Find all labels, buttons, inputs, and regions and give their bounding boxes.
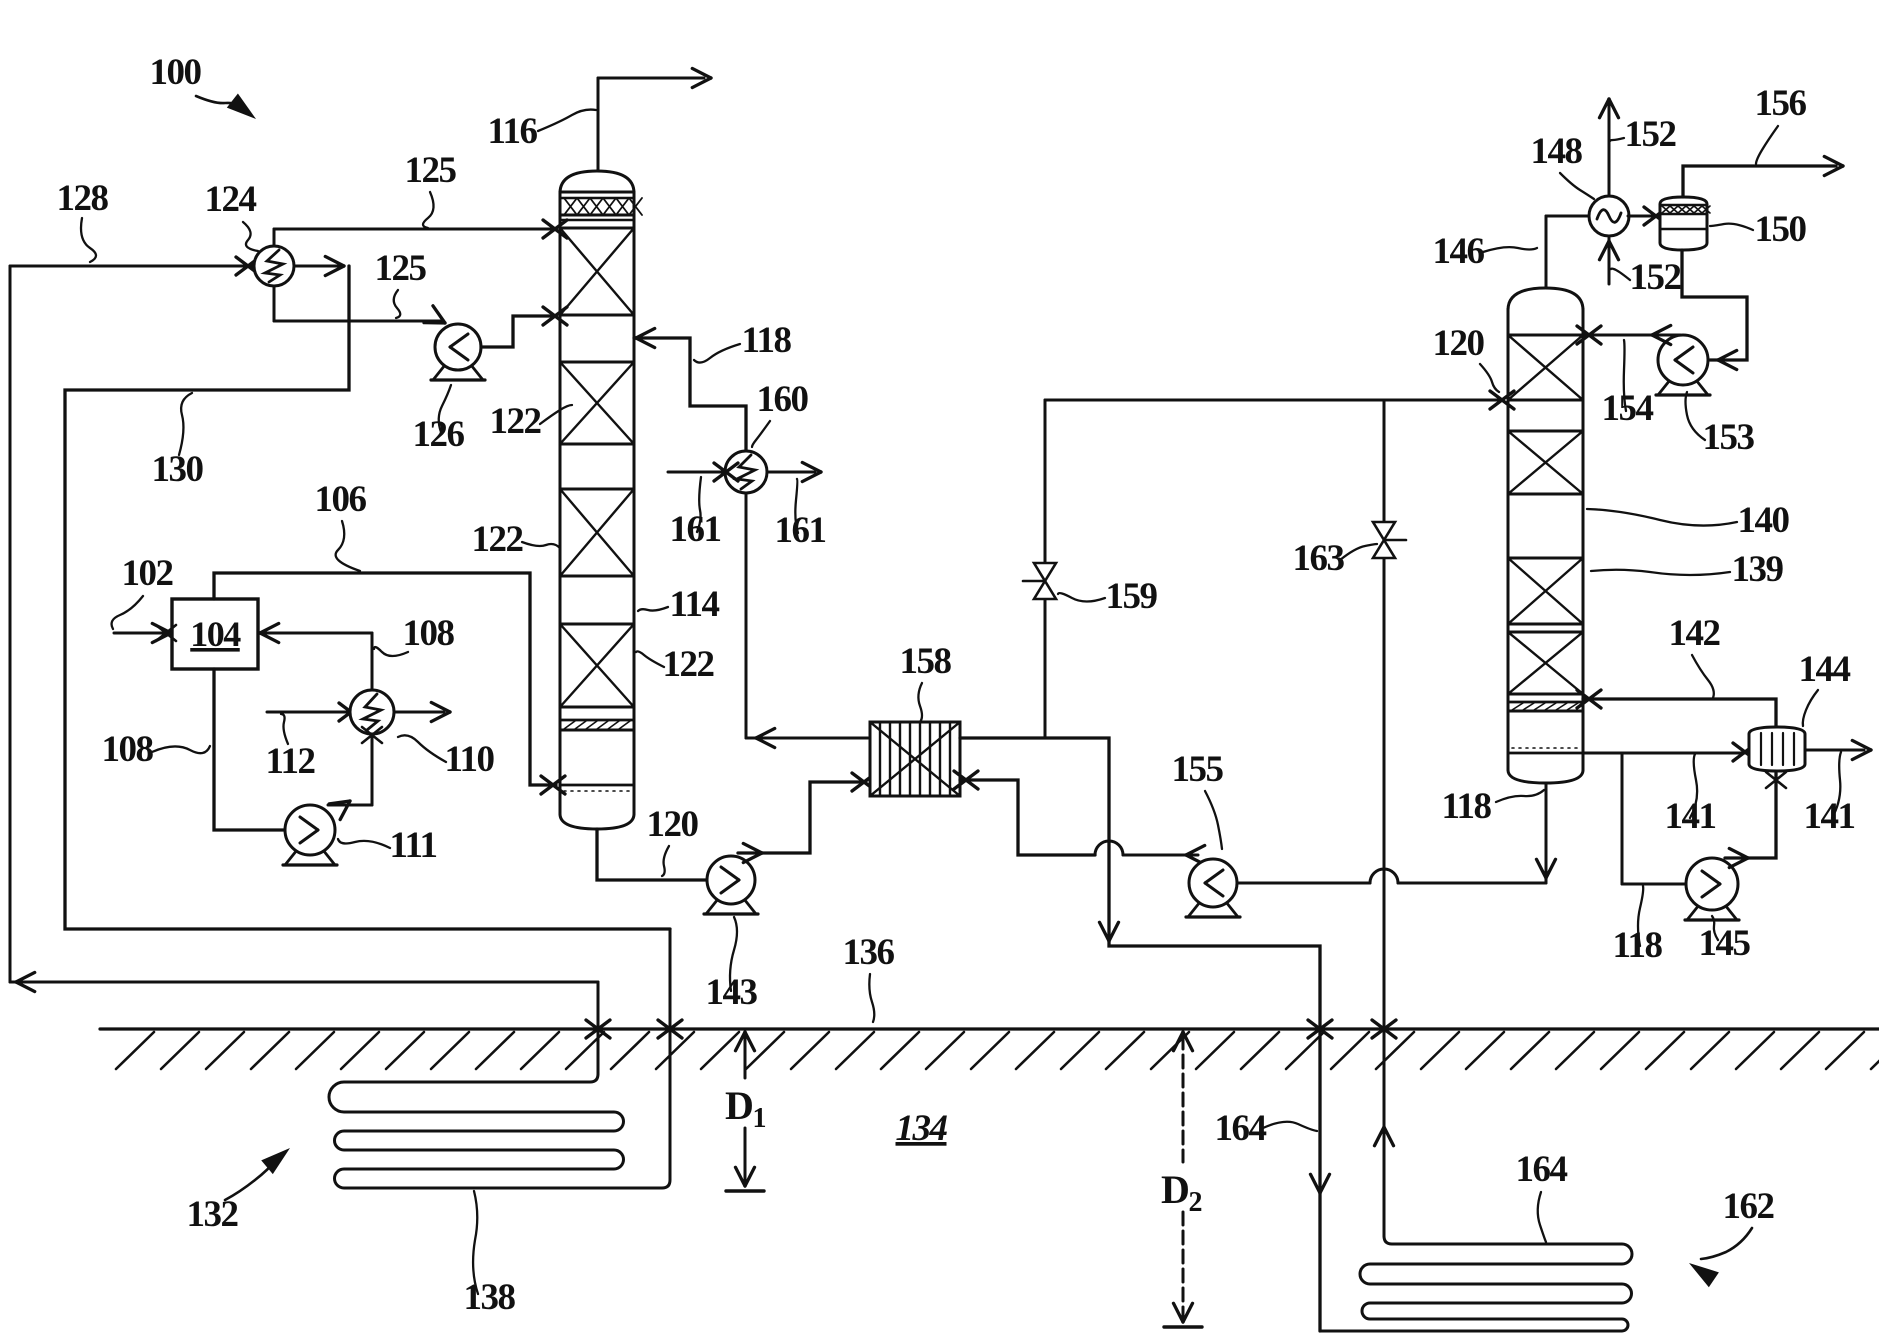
svg-text:162: 162	[1723, 1186, 1774, 1227]
svg-text:146: 146	[1433, 231, 1485, 272]
svg-text:112: 112	[266, 741, 315, 782]
svg-text:161: 161	[670, 509, 721, 550]
svg-text:143: 143	[706, 972, 758, 1013]
svg-text:122: 122	[663, 644, 714, 685]
svg-text:128: 128	[57, 178, 109, 219]
svg-text:122: 122	[472, 519, 523, 560]
svg-text:141: 141	[1804, 796, 1855, 837]
svg-text:164: 164	[1215, 1108, 1267, 1149]
svg-text:D2: D2	[1161, 1167, 1201, 1218]
svg-text:156: 156	[1755, 83, 1807, 124]
svg-text:102: 102	[122, 553, 173, 594]
svg-text:118: 118	[742, 320, 792, 361]
svg-text:140: 140	[1738, 500, 1790, 541]
svg-text:136: 136	[843, 932, 895, 973]
svg-text:145: 145	[1699, 923, 1751, 964]
svg-text:150: 150	[1755, 209, 1807, 250]
svg-text:163: 163	[1293, 538, 1345, 579]
svg-text:154: 154	[1602, 388, 1654, 429]
svg-text:118: 118	[1442, 786, 1492, 827]
svg-text:152: 152	[1630, 257, 1681, 298]
svg-text:108: 108	[102, 729, 154, 770]
svg-text:114: 114	[670, 584, 720, 625]
svg-text:110: 110	[445, 739, 495, 780]
svg-text:120: 120	[647, 804, 699, 845]
svg-text:125: 125	[405, 150, 457, 191]
svg-text:152: 152	[1625, 114, 1676, 155]
svg-text:120: 120	[1433, 323, 1485, 364]
svg-text:161: 161	[775, 510, 826, 551]
svg-text:106: 106	[315, 479, 367, 520]
svg-text:132: 132	[187, 1194, 238, 1235]
svg-text:122: 122	[490, 401, 541, 442]
svg-text:158: 158	[900, 641, 952, 682]
svg-text:125: 125	[375, 248, 427, 289]
svg-text:153: 153	[1703, 417, 1755, 458]
svg-text:134: 134	[896, 1108, 948, 1149]
svg-text:138: 138	[464, 1277, 516, 1318]
svg-text:124: 124	[205, 179, 257, 220]
svg-text:142: 142	[1669, 613, 1720, 654]
svg-text:144: 144	[1799, 649, 1851, 690]
svg-text:116: 116	[488, 111, 538, 152]
svg-text:108: 108	[403, 613, 455, 654]
svg-text:100: 100	[150, 52, 202, 93]
svg-text:159: 159	[1106, 576, 1158, 617]
svg-text:155: 155	[1172, 749, 1224, 790]
svg-text:104: 104	[190, 614, 241, 654]
svg-text:130: 130	[152, 449, 204, 490]
svg-text:160: 160	[757, 379, 809, 420]
svg-text:148: 148	[1531, 131, 1583, 172]
svg-text:D1: D1	[725, 1083, 765, 1134]
svg-text:139: 139	[1732, 549, 1784, 590]
svg-text:164: 164	[1516, 1149, 1568, 1190]
svg-text:111: 111	[390, 825, 437, 866]
